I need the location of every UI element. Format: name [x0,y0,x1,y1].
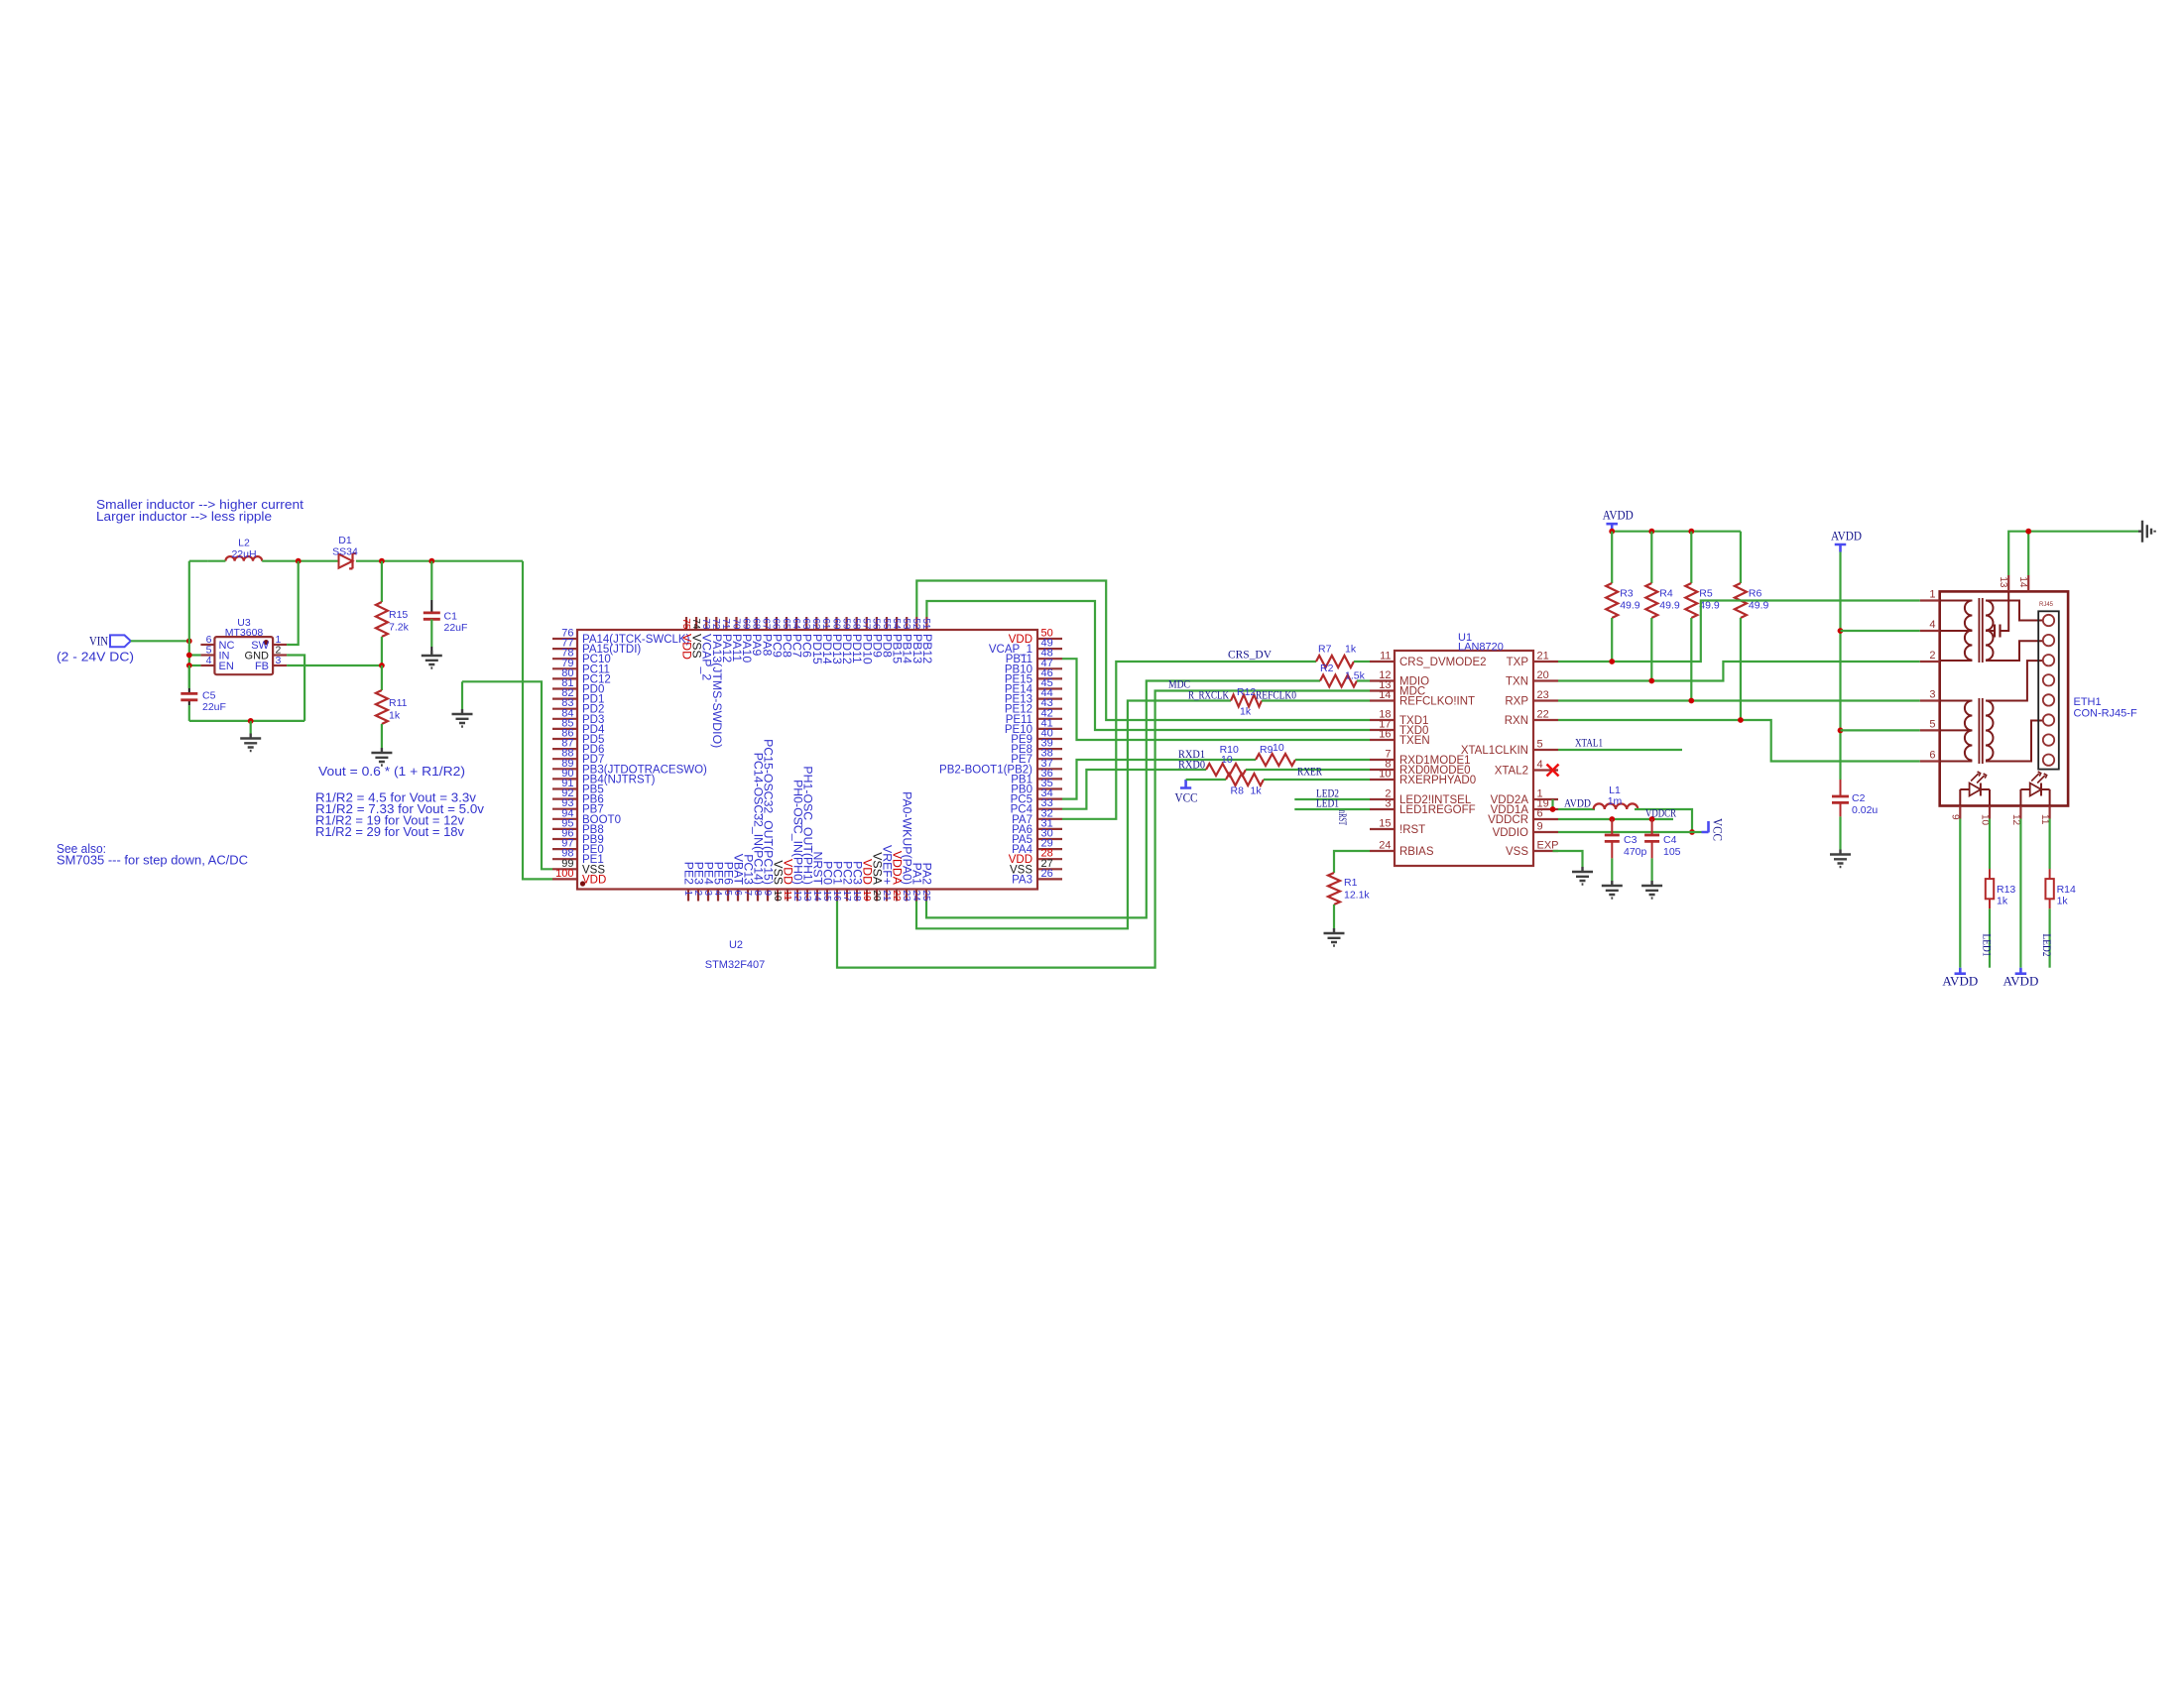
svg-text:Vout = 0.6 * (1 + R1/R2): Vout = 0.6 * (1 + R1/R2) [318,764,465,779]
svg-text:23: 23 [901,891,911,903]
U2 pin 7 PC13 [747,890,749,902]
jack contact 5 [2043,694,2054,705]
svg-text:70: 70 [730,618,741,630]
svg-text:75: 75 [680,618,691,630]
no-connect X on XTAL2 pin 4 [1547,765,1559,777]
U2 pin 20 VSSA [876,890,878,902]
ground below R1 [1324,928,1345,946]
U2 pin 65 PC8 [786,617,788,630]
U2 pin 14 NRST [816,890,818,902]
resistor R13 1k [1989,869,1991,879]
svg-text:22: 22 [1537,709,1549,721]
svg-text:1k: 1k [1997,896,2008,907]
svg-text:51: 51 [920,618,931,630]
svg-text:RXERPHYAD0: RXERPHYAD0 [1399,775,1476,786]
svg-text:72: 72 [710,618,721,630]
U2 pin 49 VCAP_1 [1037,648,1062,650]
U2 pin 62 PD15 [815,617,817,630]
ground top right [2138,521,2155,543]
resistor R4 49.9 [1650,532,1652,583]
jack 8P8C block [2038,611,2059,769]
resistor R14 1k [2049,869,2051,879]
U2 pin 59 PD12 [845,617,847,630]
svg-text:U2: U2 [729,939,743,951]
svg-text:AVDD: AVDD [1564,798,1591,810]
wire R2 to LAN pin 12 [1357,679,1370,681]
wire R5 to RXP row [1690,618,1692,701]
svg-text:4: 4 [712,891,723,897]
U2 pin 72 PA13(JTMS-SWDIO) [715,617,717,630]
svg-text:R15: R15 [389,609,408,621]
svg-text:R_RXCLK: R_RXCLK [1188,688,1229,702]
node IN junction [186,653,192,659]
svg-text:AVDD: AVDD [1831,529,1862,543]
transformer T2 primary winding [1940,700,1973,702]
svg-text:57: 57 [861,618,872,630]
svg-text:66: 66 [771,618,782,630]
power VCC flag on RXER net [1180,780,1191,788]
svg-text:9: 9 [1950,814,1961,820]
U2 pin 50 VDD [1037,638,1062,640]
U2 pin 83 PD2 [552,708,577,710]
U2 pin 34 PC5 [1037,797,1062,799]
U2 pin 89 PB3(JTDOTRACESWO) [552,768,577,770]
wire R4 to TXN row [1650,618,1652,681]
svg-text:22uF: 22uF [202,701,226,713]
U2 pin 99 VSS [552,868,577,870]
resistor R8 1k [1226,774,1264,785]
connector ETH1 CON-RJ45-F body [1940,591,2068,805]
svg-text:7.2k: 7.2k [389,622,410,634]
wire FB to divider [287,664,382,666]
svg-text:PA2: PA2 [920,863,934,885]
power AVDD flag center-tap [1835,544,1847,552]
U3 pin 5 IN [200,654,214,656]
power AVDD flag left [1606,524,1618,532]
U1 pin 4 XTAL2 [1533,769,1558,771]
svg-text:RJ45: RJ45 [2039,602,2054,608]
node AVDD rail R3 [1609,529,1615,535]
svg-text:R8: R8 [1231,785,1245,797]
U2 pin 15 PC0 [826,890,828,902]
capacitor C2 0.02u [1840,780,1842,796]
U3 pin 4 EN [200,664,214,666]
svg-text:SS34: SS34 [332,546,358,558]
svg-text:STM32F407: STM32F407 [705,959,766,971]
U2 pin 90 PB4(NJTRST) [552,778,577,780]
U2 pin 68 PA9 [756,617,758,630]
jack contact 1 [2043,615,2054,626]
wire T1 secondary top to jack pin1 [1986,601,2043,621]
U2 pin 26 PA3 [1037,878,1062,880]
svg-text:21: 21 [1537,651,1549,663]
U2 pin 11 VDD [787,890,789,902]
svg-text:LED1: LED1 [1316,796,1339,810]
wire RXD0 net PC4 to R10 [1062,770,1206,809]
svg-text:73: 73 [700,618,711,630]
node R15 top junction [379,558,385,564]
U1 pin 15 !RST [1370,828,1395,830]
node AVDD rail R4 [1648,529,1654,535]
U2 pin 82 PD1 [552,697,577,699]
U1 pin 3 LED1REGOFF [1370,808,1395,810]
U2 pin 23 PA0-WKUP(PA0) [906,890,908,902]
wire T1 secondary bottom to jack pin2 [1986,641,2043,661]
svg-text:16: 16 [831,891,842,903]
U2 pin 100 VDD [552,878,577,880]
wire MDC net PC1 to LAN pin 13 [837,691,1370,968]
wire L1 to VDDIO corner [1635,809,1692,832]
wire CRS_DV net PA7 to R7 [1062,662,1316,819]
transformer T1 primary winding [1940,600,1973,602]
wire T2 secondary top to jack pin3 [1986,661,2043,700]
U3 pin 2 GND [273,654,287,656]
wire pin10 to R13 [1989,819,1991,870]
wire T2 secondary bottom to jack pin6 [1986,721,2043,762]
resistor R12 1k [1231,695,1262,707]
wire R10 to LAN pin 8 [1246,769,1370,771]
U2 pin 40 PE9 [1037,738,1062,740]
transformer T2 center tap [1940,729,1973,731]
svg-text:C3: C3 [1624,834,1638,846]
power VCC flag right [1702,821,1709,832]
svg-text:10: 10 [772,891,783,903]
wire R3 to TXP row [1611,618,1613,662]
IC U3 MT3608 [214,637,273,674]
svg-text:R1/R2 = 29 for Vout = 18v: R1/R2 = 29 for Vout = 18v [315,824,465,839]
svg-text:105: 105 [1663,846,1681,858]
ETH1 pin 12 [2019,806,2021,819]
svg-text:15: 15 [821,891,832,903]
resistor R10 10 [1206,764,1246,776]
svg-text:R6: R6 [1749,588,1762,600]
wire VDD2A to VDD1A tie [1551,799,1553,809]
svg-text:9: 9 [762,891,773,897]
node center tap pin4 [1838,628,1844,634]
capacitor C4 105 [1651,819,1653,835]
U1 pin 22 RXN [1533,719,1558,721]
wire IN pin to rail [189,654,201,656]
U2 pin 3 PE4 [707,890,709,902]
svg-text:10: 10 [1379,769,1391,781]
svg-text:R13: R13 [1997,884,2015,896]
inductor L1 1m [1594,803,1638,809]
svg-text:LED2: LED2 [2040,934,2054,957]
svg-text:22uH: 22uH [231,548,256,560]
capacitor T1 center tap [1986,630,1995,632]
svg-text:1k: 1k [1251,785,1263,797]
U2 pin 25 PA2 [925,890,927,902]
svg-text:10: 10 [1979,814,1990,826]
svg-text:R11: R11 [389,697,408,709]
svg-text:R12: R12 [1237,686,1256,698]
svg-text:54: 54 [891,618,902,630]
U2 pin 37 PB2-BOOT1(PB2) [1037,768,1062,770]
svg-text:LAN8720: LAN8720 [1458,642,1504,654]
svg-text:AVDD: AVDD [1603,508,1634,523]
diode D1 SS34 [339,554,353,568]
wire boost output to VDD pin 100 [523,561,552,880]
U2 pin 32 PA7 [1037,818,1062,820]
svg-text:CRS_DV: CRS_DV [1228,648,1272,662]
svg-text:12.1k: 12.1k [1344,890,1370,902]
svg-text:R1: R1 [1344,877,1358,889]
svg-text:1k: 1k [389,710,401,722]
svg-text:RXD0: RXD0 [1178,758,1205,772]
wire R13 to LED1 net [1989,908,1991,967]
svg-text:18: 18 [851,891,862,903]
ground below R11 [371,748,392,766]
wire R7 to LAN pin 11 [1354,661,1370,663]
jack contact 8 [2043,755,2054,766]
U2 pin 95 PB8 [552,828,577,830]
U2 pin 38 PE7 [1037,758,1062,760]
U2 pin 66 PC9 [776,617,778,630]
svg-text:R7: R7 [1318,644,1332,656]
wire VDD1A to L1 [1558,808,1595,810]
svg-text:19: 19 [861,891,872,903]
ETH1 pin 13 [2007,575,2009,591]
resistor R15 7.2k [381,561,383,602]
svg-text:VDD: VDD [582,874,606,886]
U2 pin 77 PA15(JTDI) [552,648,577,650]
U2 pin 36 PB1 [1037,778,1062,780]
U1 pin 9 VDDIO [1533,831,1558,833]
U2 pin 96 PB9 [552,838,577,840]
svg-text:64: 64 [790,618,801,630]
U2 pin 98 PE1 [552,858,577,860]
svg-text:Larger inductor --> less rippl: Larger inductor --> less ripple [96,509,272,524]
svg-text:71: 71 [720,618,731,630]
svg-text:3: 3 [276,655,282,666]
svg-text:TXEN: TXEN [1399,735,1430,747]
IC U1 LAN8720 body [1395,651,1533,866]
U1 pin 12 MDIO [1370,679,1395,681]
U1 pin 11 CRS_DVMODE2 [1370,661,1395,663]
svg-text:68: 68 [751,618,762,630]
U2 pin 57 PD10 [866,617,868,630]
svg-text:1k: 1k [1240,706,1252,718]
wire to RJ45 pin 4 [1841,630,1920,632]
node center tap pin5 [1838,728,1844,734]
U1 pin 5 XTAL1CLKIN [1533,749,1558,751]
svg-text:58: 58 [851,618,862,630]
U2 pin 44 PE13 [1037,697,1062,699]
U2 pin 91 PB5 [552,787,577,789]
svg-text:1k: 1k [1345,644,1357,656]
ETH1 pin 5 [1920,729,1940,731]
svg-text:PA3: PA3 [1012,874,1032,886]
wire RXD1 net PC5 to R9 [1062,760,1256,799]
jack contact 2 [2043,635,2054,646]
node C1 top junction [428,558,434,564]
svg-text:!RST: !RST [1399,824,1425,836]
U1 pin EXP VSS [1533,850,1558,852]
svg-text:FB: FB [255,661,269,672]
U2 pin 67 PA8 [766,617,768,630]
svg-text:MDC: MDC [1168,677,1190,691]
svg-text:REFCLK0: REFCLK0 [1256,688,1296,702]
U3 pin 3 FB [273,664,287,666]
svg-text:4: 4 [206,655,212,666]
U2 pin 43 PE12 [1037,708,1062,710]
U2 pin 9 PC15-OSC32_OUT(PC15) [767,890,769,902]
wire R9 to LAN pin 7 [1295,759,1370,761]
svg-text:C5: C5 [202,690,216,702]
ground below C2 [1830,850,1851,868]
U2 pin 78 PC10 [552,658,577,660]
U2 pin 16 PC1 [836,890,838,902]
wire RXN to RJ45 pin 6 [1558,720,1920,762]
wire VSS pin 99 to ground [462,681,552,869]
U2 pin 61 PD14 [825,617,827,630]
U2 pin 63 PC6 [805,617,807,630]
svg-text:49.9: 49.9 [1620,600,1640,612]
U2 pin 33 PC4 [1037,808,1062,810]
wire TXD1 net PB13 to LAN pin 18 [916,581,1370,721]
svg-text:5: 5 [1537,739,1543,751]
svg-text:R9: R9 [1260,744,1274,756]
resistor R5 49.9 [1690,532,1692,583]
U1 pin 24 RBIAS [1370,850,1395,852]
wire pin11 to R14 [2049,819,2051,870]
svg-text:LED1REGOFF: LED1REGOFF [1399,804,1476,816]
node VDDIO junction [1689,829,1695,835]
svg-text:TXN: TXN [1506,676,1528,688]
U2 pin 69 PA10 [745,617,747,630]
U2 pin 22 VDDA [896,890,898,902]
svg-text:2: 2 [1929,650,1935,662]
U2 pin 76 PA14(JTCK-SWCLK) [552,638,577,640]
U2 pin 13 PH1-OSC_OUT(PH1) [806,890,808,902]
svg-text:67: 67 [761,618,772,630]
node C3 top junction [1609,816,1615,822]
U1 pin 2 LED2!INTSEL [1370,798,1395,800]
wire to RJ45 pin 5 [1841,729,1920,731]
U2 pin 19 VDD [866,890,868,902]
U1 pin 13 MDC [1370,689,1395,691]
svg-text:RXER: RXER [1297,765,1322,779]
wire cap to pin 13 [2001,591,2009,631]
capacitor C1 22uF [430,561,432,600]
svg-text:16: 16 [1379,729,1391,741]
svg-text:6: 6 [1537,808,1543,820]
U1 pin 17 TXD0 [1370,729,1395,731]
U2 pin 48 PB11 [1037,658,1062,660]
U1 pin 14 REFCLKO!INT [1370,699,1395,701]
svg-text:65: 65 [781,618,791,630]
svg-text:15: 15 [1379,818,1391,830]
U2 pin 53 PB14 [906,617,908,630]
resistor R3 49.9 [1611,532,1613,583]
U2 pin 17 PC2 [846,890,848,902]
transformer T1 core [1979,598,1982,663]
svg-text:1k: 1k [2057,896,2069,907]
svg-text:R3: R3 [1620,588,1634,600]
svg-text:RXP: RXP [1505,696,1528,708]
svg-text:RBIAS: RBIAS [1399,846,1434,858]
svg-text:XTAL1: XTAL1 [1575,738,1603,750]
svg-text:1m: 1m [1608,795,1623,807]
svg-text:13: 13 [801,891,812,903]
svg-text:8: 8 [752,891,763,897]
inductor L2 22uH [225,556,262,561]
U2 pin 29 PA4 [1037,848,1062,850]
svg-text:5: 5 [722,891,733,897]
svg-text:69: 69 [740,618,751,630]
power AVDD flag below pin9 [1955,968,1967,974]
svg-text:CON-RJ45-F: CON-RJ45-F [2074,708,2137,720]
svg-text:MT3608: MT3608 [225,627,264,639]
jack contact 6 [2043,714,2054,725]
U1 pin 16 TXEN [1370,739,1395,741]
svg-text:6: 6 [732,891,743,897]
U2 pin 30 PA5 [1037,838,1062,840]
U2 pin 6 VBAT [737,890,739,902]
resistor R6 49.9 [1740,532,1742,583]
wire REFCLK0 net PA1 to R12 [916,701,1231,929]
svg-text:EN: EN [219,661,234,672]
U2 pin 84 PD3 [552,718,577,720]
wire EN pin to rail [189,664,201,666]
wire R12 to LAN pin 14 [1262,699,1370,701]
svg-text:5: 5 [1929,718,1935,730]
U1 pin 6 VDDCR [1533,818,1558,820]
U2 pin 1 PE2 [687,890,689,902]
svg-text:6: 6 [1929,750,1935,762]
svg-text:20: 20 [871,891,882,903]
svg-text:470p: 470p [1624,846,1647,858]
U2 pin 60 PD13 [835,617,837,630]
U2 pin 73 VCAP_2 [705,617,707,630]
node shield junction [2025,529,2031,535]
transformer T1 center tap [1940,630,1973,632]
U1 pin 7 RXD1MODE1 [1370,759,1395,761]
svg-text:AVDD: AVDD [1942,974,1978,989]
svg-text:11: 11 [782,891,792,902]
svg-text:C4: C4 [1663,834,1677,846]
node AVDD rail R5 [1688,529,1694,535]
power AVDD flag below pin12 [2015,968,2027,974]
U1 pin 20 TXN [1533,679,1558,681]
U3 pin 1 SW [273,644,287,646]
svg-text:VDDIO: VDDIO [1493,827,1528,839]
wire TXP to RJ45 pin 1 [1558,601,1920,663]
U1 pin 19 VDD1A [1533,808,1558,810]
svg-text:4: 4 [1929,619,1935,631]
svg-text:14: 14 [811,891,822,903]
node RXN R6 junction [1738,717,1744,723]
wire RBIAS to R1 [1334,851,1370,873]
svg-text:VDDCR: VDDCR [1488,814,1528,826]
resistor R9 10 [1256,754,1295,766]
U2 pin 45 PE14 [1037,687,1062,689]
svg-text:56: 56 [871,618,882,630]
svg-text:53: 53 [901,618,911,630]
U2 pin 8 PC14-OSC32_IN(PC14) [757,890,759,902]
U2 pin 51 PB12 [925,617,927,630]
capacitor C3 470p [1611,819,1613,835]
ETH1 pin 9 [1959,806,1961,819]
svg-text:VDDCR: VDDCR [1645,808,1676,820]
wire XTAL1 net [1558,749,1682,751]
U2 pin 58 PD11 [856,617,858,630]
U2 pin 10 VSS [777,890,779,902]
wire TXD0 net PB12 to LAN pin 17 [926,601,1370,730]
svg-text:11: 11 [1380,651,1391,663]
U2 pin 2 PE3 [697,890,699,902]
svg-text:1: 1 [682,891,693,897]
